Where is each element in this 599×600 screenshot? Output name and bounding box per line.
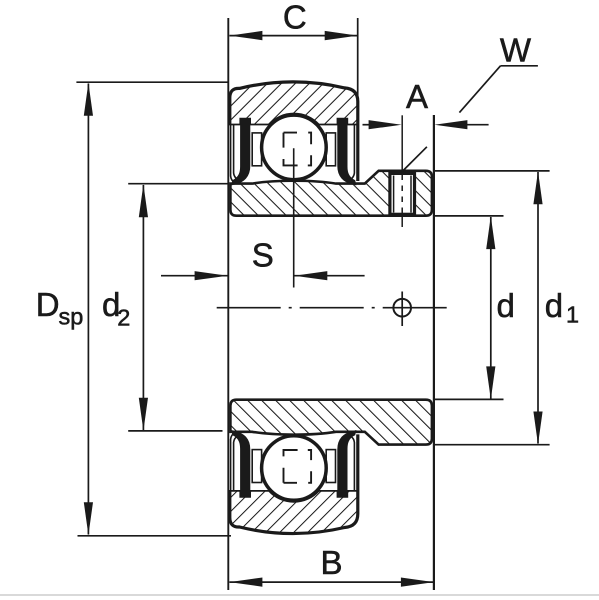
svg-text:sp: sp	[59, 303, 84, 329]
outer ring thick outer contour	[230, 82, 358, 181]
outer ring left lip lines (bottom)	[231, 433, 235, 491]
ball center plane line (S extension)	[293, 148, 295, 287]
outer ring thick outer contour (bottom)	[230, 434, 358, 533]
svg-text:B: B	[320, 544, 342, 581]
svg-text:d: d	[497, 287, 515, 324]
dimension Dsp	[36, 82, 231, 536]
svg-text:A: A	[406, 78, 428, 115]
seal left (bottom)	[232, 431, 250, 497]
svg-text:W: W	[500, 32, 532, 69]
dashed square on ball (bottom)	[284, 450, 312, 483]
seal right	[338, 119, 356, 185]
dashed square on ball	[284, 133, 312, 166]
svg-text:1: 1	[566, 301, 579, 327]
svg-text:d: d	[545, 287, 563, 324]
svg-text:2: 2	[117, 304, 130, 330]
dimension d1	[435, 171, 579, 445]
race shoulder right (bottom)	[326, 450, 335, 483]
svg-text:C: C	[283, 0, 307, 36]
dimension A	[363, 78, 489, 129]
race shoulder left	[252, 133, 261, 166]
extension line inner ring right face (A/B/d)	[433, 115, 435, 590]
set screw thread line right	[410, 176, 412, 213]
set screw centerline	[401, 115, 403, 172]
svg-text:D: D	[36, 286, 60, 323]
extension line left face (C/S/B)	[227, 18, 229, 590]
inner ring bottom section (hatched \)	[230, 400, 432, 445]
extension line right face of outer ring (C)	[357, 18, 359, 99]
race shoulder right	[326, 133, 335, 166]
outer ring top section (hatched /)	[230, 82, 358, 125]
lubrication hole circle on axis	[393, 299, 411, 317]
lubrication hole crosshair	[401, 292, 403, 327]
center axis dash-dot line	[217, 307, 447, 309]
dimension d2	[102, 184, 228, 431]
race shoulder left (bottom)	[252, 450, 261, 483]
ball (bottom)	[262, 436, 327, 501]
set screw thread line left	[393, 176, 395, 213]
label W with leader	[403, 32, 538, 171]
dimension C	[229, 0, 357, 40]
dimension d	[435, 216, 515, 400]
bottom page rule	[0, 594, 599, 596]
ball	[262, 115, 327, 180]
dimension B	[229, 544, 434, 587]
seal right (bottom)	[338, 431, 356, 497]
svg-text:S: S	[252, 237, 274, 274]
outer ring left lip lines	[231, 125, 235, 183]
dimension S	[161, 237, 365, 281]
seal left	[232, 119, 250, 185]
outer ring right lip line (bottom)	[351, 436, 355, 491]
outer ring bottom section (hatched /)	[230, 491, 358, 534]
inner ring top section (hatched \)	[230, 171, 432, 216]
outer ring right lip line	[351, 125, 355, 180]
set screw	[390, 173, 415, 214]
